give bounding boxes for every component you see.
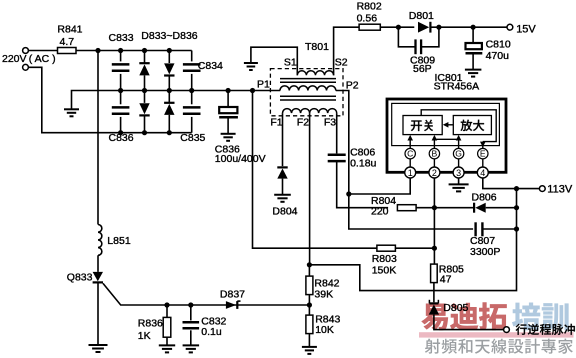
svg-text:T801: T801 (305, 41, 329, 53)
core lines S-P (280, 78, 336, 80)
capacitor C833 (120, 51, 122, 62)
wire F2 down (309, 113, 311, 265)
junction R842 top (307, 262, 312, 267)
wire R805 to D805 (433, 283, 435, 303)
svg-text:P1: P1 (257, 79, 270, 91)
watermark text peixun blue (512, 302, 569, 330)
resistor R841 (58, 48, 77, 54)
arrow amplifier to switch (447, 124, 453, 126)
svg-text:220V: 220V (2, 53, 27, 65)
wire R842 node to 113V rail (309, 189, 516, 291)
svg-text:0.18u: 0.18u (350, 157, 376, 169)
wire R802 to D801 (380, 26, 414, 28)
capacitor C810 electrolytic (472, 27, 474, 43)
winding S primary top (297, 71, 333, 76)
svg-text:D806: D806 (472, 191, 497, 203)
resistor R802 (359, 24, 380, 30)
junction R836 (164, 302, 169, 307)
svg-text:0.1u: 0.1u (201, 326, 222, 338)
svg-text:3300P: 3300P (470, 246, 500, 258)
wire S1 lead to ground (251, 47, 297, 73)
capacitor C807 (474, 222, 476, 236)
svg-text:S1: S1 (284, 57, 297, 69)
wire letter-pin links (409, 159, 411, 167)
svg-text:D804: D804 (272, 205, 297, 217)
wire P1 node down to R803 line (253, 91, 378, 249)
capacitor C834 (191, 51, 193, 62)
IC801 inner box (392, 103, 500, 145)
svg-text:47: 47 (440, 274, 452, 286)
diode D834 (168, 51, 170, 64)
svg-text:113V: 113V (547, 184, 573, 196)
diode D806 (475, 203, 485, 213)
node A junction (95, 48, 100, 53)
op-amp U1 IC801 outer box (387, 99, 506, 172)
svg-text:2: 2 (432, 168, 437, 178)
wire R841 to bridge top rail (76, 50, 192, 52)
svg-text:D833~D836: D833~D836 (141, 30, 197, 42)
svg-text:1K: 1K (138, 330, 151, 342)
svg-text:10K: 10K (315, 324, 334, 336)
terminal AC-2 (23, 64, 29, 70)
wire left vertical (97, 51, 99, 225)
bridge junction dots (118, 48, 123, 53)
wire D806 to 113V rail (486, 207, 517, 209)
svg-text:Q833: Q833 (67, 271, 93, 283)
svg-text:E: E (480, 149, 486, 159)
junction pin2-R804 (432, 205, 437, 210)
capacitor C832 (190, 305, 192, 320)
svg-text:100u/400V: 100u/400V (215, 153, 266, 165)
ground C810 (465, 69, 482, 71)
ground pin3 (449, 183, 469, 185)
resistor R803 (377, 245, 396, 251)
diode D836 (168, 91, 170, 103)
wire pin3 ground stem (458, 178, 460, 184)
junction 113V rail top (514, 186, 519, 191)
junction R803-R805 (432, 246, 437, 251)
svg-text:S2: S2 (335, 57, 348, 69)
watermark band (419, 332, 574, 337)
ground D804 (274, 194, 291, 196)
ground Q833 (89, 344, 108, 346)
diode D804 (277, 166, 287, 168)
resistor R836 (166, 305, 168, 318)
wire L851 to Q833 (97, 255, 99, 272)
resistor R804 (397, 205, 416, 211)
wire D801 out (432, 26, 510, 28)
ground mid rail (64, 108, 79, 110)
ground C832 (183, 344, 200, 346)
wire F1 down (282, 113, 284, 166)
svg-text:C: C (407, 149, 413, 159)
svg-text:( AC ): ( AC ) (29, 53, 56, 65)
svg-text:C835: C835 (180, 132, 205, 144)
svg-text:B: B (432, 149, 438, 159)
junction dots 15V rail (436, 25, 441, 30)
wire mid rail (72, 91, 281, 109)
transformer dashed box (270, 69, 343, 116)
svg-text:L851: L851 (107, 235, 131, 247)
capacitor C836 bridge (120, 91, 122, 105)
svg-text:STR456A: STR456A (434, 80, 480, 92)
diode D801 (418, 22, 429, 33)
junction C832 (188, 302, 193, 307)
svg-text:150K: 150K (372, 264, 397, 276)
wire P2 lead (336, 91, 473, 230)
IC801 amplifier box (453, 116, 491, 135)
svg-text:D837: D837 (220, 288, 245, 300)
svg-text:R836: R836 (138, 317, 163, 329)
svg-text:P2: P2 (346, 79, 359, 91)
diode D833 (144, 51, 146, 64)
wire pin4 to 113V (483, 178, 539, 189)
svg-text:39K: 39K (314, 288, 333, 300)
resistor R843 (306, 315, 313, 334)
svg-text:R841: R841 (57, 24, 82, 36)
svg-text:R803: R803 (372, 253, 397, 265)
svg-text:56P: 56P (413, 63, 432, 75)
capacitor C836 100u/400V electrolytic (227, 91, 229, 108)
core lines P-F (280, 95, 336, 97)
wire t2 down to bottom rail (28, 67, 191, 132)
svg-text:F3: F3 (324, 116, 336, 128)
svg-text:470u: 470u (486, 50, 510, 62)
ground R843 (302, 346, 317, 348)
ground R836 (159, 344, 175, 346)
wire R803 to pin2 vertical (396, 247, 435, 249)
wire t1 to R841 (28, 50, 57, 52)
wire S2 lead up (334, 27, 360, 73)
node P2-pin1 junction (346, 191, 351, 196)
resistor R805 (431, 264, 438, 283)
svg-text:F1: F1 (270, 116, 282, 128)
svg-text:C834: C834 (198, 60, 223, 72)
svg-text:F2: F2 (297, 116, 309, 128)
diode D805 zener (429, 302, 438, 304)
svg-text:R802: R802 (357, 0, 382, 12)
svg-text:220: 220 (371, 206, 389, 218)
svg-text:C833: C833 (109, 32, 134, 44)
svg-text:4.7: 4.7 (60, 36, 75, 48)
svg-text:4: 4 (480, 168, 485, 178)
capacitor C806 (336, 113, 338, 153)
winding P middle (280, 86, 336, 91)
ground S1 (244, 62, 258, 64)
wire D805 to flyback terminal (434, 315, 503, 330)
wire pin2 down (433, 178, 435, 264)
watermark slogan gray (425, 339, 573, 354)
watermark text yiditop red (421, 302, 507, 330)
capacitor C835 (191, 91, 193, 105)
inductor L851 (98, 225, 102, 256)
arrow B to switch (433, 140, 435, 149)
junction D801 anode (396, 25, 401, 30)
feedback line top (421, 110, 496, 142)
terminal 15V (507, 24, 513, 30)
resistor R842 (308, 265, 310, 276)
wire pin1 to P2 node (349, 178, 410, 194)
IC pin letter circles C B G E (405, 148, 415, 158)
svg-text:15V: 15V (516, 23, 536, 35)
arrow G to amplifier (458, 140, 460, 149)
wire E arrow stem (482, 142, 484, 149)
svg-text:D801: D801 (409, 10, 434, 22)
arrow C to switch (409, 140, 411, 149)
wire B-G connector (434, 138, 458, 140)
diode D837 (226, 301, 236, 309)
svg-text:G: G (455, 149, 462, 159)
svg-text:3: 3 (456, 168, 461, 178)
winding F bottom (283, 109, 337, 114)
wire R804 to D806 (416, 207, 474, 209)
svg-text:C810: C810 (486, 39, 511, 51)
wire Q833 gate diagonal (103, 283, 309, 305)
capacitor C809 bypass (398, 27, 415, 47)
junction D837-R843 (307, 302, 312, 307)
terminal 113V (539, 186, 545, 192)
svg-text:1: 1 (408, 168, 413, 178)
diode D835 (144, 91, 146, 103)
IC801 switch box (403, 116, 442, 135)
wire Q833 to ground (97, 282, 99, 344)
terminal AC-1 (23, 48, 29, 54)
thyristor Q833 (93, 272, 103, 281)
svg-text:0.56: 0.56 (357, 12, 378, 24)
label flyback pulse (516, 324, 575, 335)
terminal flyback pulse (504, 327, 510, 333)
IC pin circles 1 2 3 4 (405, 167, 416, 178)
svg-text:D805: D805 (443, 302, 468, 314)
